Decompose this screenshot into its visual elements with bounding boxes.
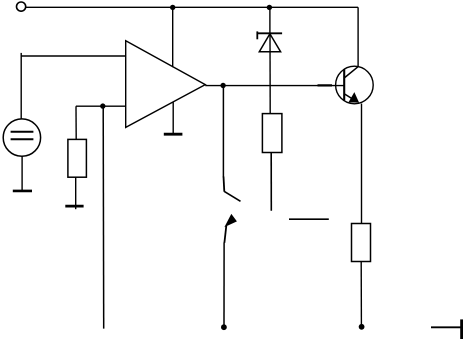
wire (switch lower lead down to dot)	[223, 243, 225, 326]
wire (non-inverting input from source V1)	[20, 53, 22, 119]
source V1 (DC source circle)	[3, 119, 40, 156]
wire (R2 bottom lead, open end)	[270, 153, 272, 211]
wire (R1 to ground)	[75, 177, 77, 209]
node (bottom end dot of emitter branch)	[359, 324, 365, 330]
switch S1 arrow (lower contact)	[225, 215, 236, 227]
wire (R3 to bottom dot)	[360, 262, 362, 325]
wire (long feedback wire going down, open end)	[102, 106, 105, 328]
transistor Q1 emitter arrow	[349, 93, 358, 102]
wire (zener drop from top rail)	[269, 7, 271, 33]
wire (op-amp output to transistor base)	[205, 85, 343, 87]
diode D1 (zener) cathode bar	[257, 32, 282, 34]
wire (down to resistor R1)	[75, 106, 77, 139]
transistor Q1 base bar	[343, 69, 345, 100]
op-amp U1 (triangle)	[126, 41, 206, 128]
ground (op-amp negative supply bar)	[164, 133, 183, 136]
wire (op-amp V+ supply drop)	[172, 7, 174, 67]
source V1 plates	[11, 131, 34, 133]
transistor Q1 circle	[336, 66, 374, 104]
terminal J1 (open circle, top-left input)	[17, 2, 26, 11]
node (bottom end dot of switch branch)	[221, 324, 227, 330]
switch S1 blade	[224, 191, 240, 201]
diode D1 triangle	[259, 34, 280, 52]
resistor R1 (left, to ground)	[68, 139, 87, 177]
ground (below source V1)	[13, 190, 32, 193]
node (junction at inverting input)	[100, 103, 105, 108]
wire (top rail from terminal to top-right corner)	[26, 6, 358, 8]
wire (short horizontal stub right of switch)	[289, 218, 329, 220]
node (junction on top rail above zener)	[267, 5, 272, 10]
node (junction at op-amp output)	[220, 83, 225, 88]
node (junction on top rail above op-amp)	[170, 5, 175, 10]
wire (collector up to top rail)	[357, 7, 359, 67]
wire (thicker overlap segment near base)	[318, 84, 333, 86]
wire (junction down to switch)	[222, 86, 224, 178]
wire (source V1 to ground)	[21, 156, 23, 190]
ground (below R1)	[65, 205, 83, 208]
resistor R2 (below zener)	[262, 114, 282, 153]
wire (bottom-right stub)	[431, 326, 461, 328]
wire (op-amp V- pin down from triangle)	[172, 102, 174, 133]
switch S1 pivot segment	[223, 177, 226, 192]
wire (inverting input wire)	[76, 105, 126, 107]
wire (zener to resistor R2)	[269, 34, 271, 114]
resistor R3 (emitter resistor)	[352, 224, 371, 262]
transistor Q1 collector diagonal	[344, 67, 358, 78]
transistor Q1 emitter diagonal	[344, 94, 355, 101]
wire (emitter down to resistor R3)	[361, 104, 363, 224]
ground (bottom-right bar at edge)	[460, 319, 463, 339]
wire (arrow to lower lead)	[224, 226, 226, 243]
diode D1 cathode tick	[256, 31, 258, 39]
